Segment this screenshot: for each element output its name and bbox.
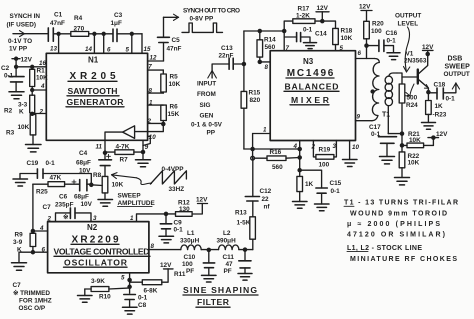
- svg-text:SWEEP: SWEEP: [118, 193, 142, 200]
- svg-text:R19: R19: [319, 146, 331, 153]
- 12V stub at R12: [192, 197, 208, 214]
- svg-text:MINIATURE RF CHOKES: MINIATURE RF CHOKES: [350, 256, 457, 263]
- svg-text:μ ≈ 2000 (PHILIPS: μ ≈ 2000 (PHILIPS: [347, 221, 440, 228]
- svg-text:C7: C7: [43, 204, 52, 211]
- svg-text:7: 7: [148, 63, 152, 70]
- wire 12V to C2 and pin16: [15, 59, 47, 77]
- svg-text:13: 13: [50, 46, 57, 53]
- svg-text:R16: R16: [270, 149, 282, 156]
- potentiometer R8 10K sweep amplitude: [93, 172, 124, 200]
- svg-text:WOUND 9mm TOROID: WOUND 9mm TOROID: [350, 211, 447, 218]
- resistor R6 15K: [161, 104, 180, 125]
- svg-text:0-1: 0-1: [446, 96, 456, 103]
- capacitor C13 22nF: [219, 45, 244, 69]
- svg-text:R17: R17: [298, 6, 310, 13]
- svg-text:10K: 10K: [169, 81, 181, 88]
- capacitor C6 68uF 10V: [59, 180, 91, 201]
- wire N2 pin8 to filter: [149, 243, 181, 250]
- svg-text:SYNCH IN: SYNCH IN: [10, 13, 41, 20]
- wire R25 left down to N2 pin4: [32, 184, 34, 231]
- wire R4 to C3, nodes pin14 pin6: [89, 32, 113, 35]
- svg-text:OUTPUT: OUTPUT: [395, 13, 421, 20]
- wire N3 pin4 vertical: [293, 141, 302, 177]
- svg-text:10: 10: [352, 144, 359, 151]
- svg-text:3-9K: 3-9K: [91, 278, 105, 285]
- svg-text:33HZ: 33HZ: [169, 186, 185, 193]
- wire N3 pin6 node: [356, 44, 379, 59]
- svg-text:C17: C17: [369, 124, 381, 131]
- capacitor C14 0.1: [284, 26, 327, 42]
- svg-text:FILTER: FILTER: [197, 297, 230, 307]
- svg-text:12: 12: [150, 55, 157, 62]
- svg-text:560: 560: [272, 164, 283, 171]
- wire pin1 to R6: [148, 100, 164, 107]
- svg-text:N2: N2: [87, 223, 98, 232]
- svg-text:FROM: FROM: [197, 91, 216, 98]
- svg-text:12V: 12V: [160, 262, 172, 269]
- R16 connector circle: [251, 156, 255, 160]
- ground N2 pin6: [12, 263, 27, 270]
- ground below R22: [395, 178, 410, 185]
- svg-text:100: 100: [182, 261, 193, 268]
- wire L1 to L2 node C10: [201, 248, 218, 251]
- svg-text:C5: C5: [172, 37, 181, 44]
- svg-text:GEN: GEN: [200, 112, 214, 119]
- svg-text:C15: C15: [330, 180, 342, 187]
- svg-text:0-1: 0-1: [174, 226, 184, 233]
- svg-text:C8: C8: [138, 302, 147, 309]
- svg-text:14: 14: [85, 46, 92, 53]
- svg-text:R5: R5: [170, 74, 179, 81]
- pin10 stub: [143, 134, 156, 146]
- svg-text:R3: R3: [6, 130, 15, 137]
- resistor R17 1.2K: [284, 6, 322, 31]
- svg-text:0-1V TO: 0-1V TO: [8, 38, 32, 45]
- svg-text:INPUT: INPUT: [197, 81, 216, 88]
- svg-text:C9: C9: [174, 219, 183, 226]
- IC N1 XR205 sawtooth generator box: [46, 53, 147, 140]
- pin9 wire to ground: [141, 140, 148, 153]
- ground below R8: [98, 200, 113, 207]
- svg-text:47nF: 47nF: [50, 20, 65, 27]
- 12V stub above R20: [359, 4, 372, 22]
- svg-text:C16: C16: [386, 30, 398, 37]
- svg-text:0-1: 0-1: [331, 188, 341, 195]
- svg-text:(IF USED): (IF USED): [7, 22, 36, 29]
- capacitor C2 0.1: [1, 65, 24, 92]
- svg-text:C3: C3: [114, 12, 123, 19]
- svg-text:12V: 12V: [317, 5, 329, 12]
- 12V stub at R11: [160, 262, 173, 282]
- wire T1 to N3 pin9: [356, 113, 373, 120]
- ground below C16: [387, 53, 400, 60]
- svg-text:16: 16: [39, 60, 46, 67]
- svg-text:SIG: SIG: [200, 102, 211, 109]
- svg-text:10K: 10K: [409, 137, 421, 144]
- svg-text:9: 9: [357, 113, 361, 120]
- svg-text:R1: R1: [37, 67, 46, 74]
- 12V stub above R17: [316, 5, 329, 23]
- wire pin8 to R5 bottom: [148, 87, 164, 94]
- svg-text:5: 5: [126, 47, 130, 54]
- emitter node: [427, 91, 430, 94]
- svg-text:T1: T1: [382, 111, 390, 118]
- capacitor C3 1uF: [111, 12, 123, 42]
- resistor R10 3.9K: [85, 278, 130, 300]
- synch out arrow to CRO: [164, 14, 179, 37]
- svg-text:C13: C13: [221, 45, 233, 52]
- ground below C15: [315, 204, 330, 211]
- svg-text:10K: 10K: [112, 181, 124, 188]
- ground below C8: [123, 307, 138, 314]
- svg-text:L1: L1: [187, 230, 195, 237]
- svg-text:1-5K: 1-5K: [237, 220, 251, 227]
- sawtooth waveform 0.4VPP 33HZ: [150, 166, 186, 193]
- svg-text:C11: C11: [223, 254, 235, 261]
- resistor R5 10K: [161, 70, 181, 93]
- resistor 1K bias: [297, 176, 314, 201]
- resistor R14 560: [257, 31, 276, 62]
- input labels: [191, 81, 223, 137]
- svg-text:100: 100: [371, 28, 382, 35]
- svg-text:R7: R7: [120, 156, 129, 163]
- resistor R19 100 between pins 2 and 3: [311, 141, 337, 169]
- svg-text:DSB: DSB: [448, 56, 463, 63]
- svg-text:3: 3: [93, 215, 97, 222]
- svg-text:V1: V1: [406, 50, 414, 57]
- svg-text:8: 8: [265, 64, 269, 71]
- svg-text:MIXER: MIXER: [291, 95, 330, 105]
- resistor R7 4.7K: [105, 143, 143, 163]
- transistor V1 2N3563: [404, 50, 429, 92]
- svg-text:N1: N1: [88, 56, 99, 65]
- svg-text:C18: C18: [434, 81, 446, 88]
- ground below C10: [202, 275, 217, 282]
- wire R6 node to op-amp input: [135, 124, 164, 132]
- svg-text:PF: PF: [186, 268, 194, 275]
- N1 top pin labels: [50, 46, 151, 54]
- ground below 1K: [293, 202, 308, 209]
- svg-text:R2: R2: [4, 107, 13, 114]
- ground below C14: [304, 43, 317, 49]
- resistor R25 47K: [33, 175, 65, 196]
- resistor R4 270: [71, 15, 89, 36]
- svg-text:47nF: 47nF: [167, 45, 182, 52]
- wire pin4 N1: [31, 83, 47, 91]
- svg-text:8: 8: [149, 87, 153, 94]
- wire C3 to pin15: [117, 32, 142, 53]
- wire N3 pin1: [251, 127, 270, 159]
- capacitor C7 235pF trimmed: [43, 201, 93, 222]
- output level label: [395, 13, 421, 28]
- transformer T1 primary winding: [371, 59, 379, 121]
- L1 L2 note text: [347, 245, 457, 263]
- capacitor C18 0.1: [428, 81, 456, 102]
- svg-text:12V: 12V: [422, 44, 434, 51]
- svg-text:XR205: XR205: [70, 71, 116, 82]
- resistor R16 560: [255, 149, 300, 171]
- svg-text:6: 6: [107, 47, 111, 54]
- svg-text:820: 820: [250, 97, 261, 104]
- svg-text:K: K: [19, 109, 24, 116]
- svg-text:1V PP: 1V PP: [9, 46, 28, 53]
- svg-text:10V: 10V: [81, 201, 93, 208]
- 12V stub at V1 collector: [422, 44, 434, 56]
- svg-text:※: ※: [63, 213, 68, 221]
- resistor R1 10K: [30, 67, 48, 90]
- svg-text:3: 3: [333, 143, 337, 150]
- resistor R18 10K: [333, 27, 353, 52]
- N2 pin2 pin3 labels: [47, 215, 98, 223]
- svg-text:2: 2: [39, 109, 44, 116]
- svg-text:235pF: 235pF: [55, 202, 74, 209]
- resistor R22 10K: [399, 152, 419, 178]
- wire N2 pin6 to ground: [19, 247, 48, 263]
- svg-text:68μF: 68μF: [74, 193, 89, 200]
- wire L2 to output node: [239, 248, 253, 251]
- svg-text:GENERATOR: GENERATOR: [67, 97, 125, 107]
- svg-text:C2: C2: [1, 65, 10, 72]
- IC N2 XR2209 voltage controlled oscillator box: [48, 222, 150, 273]
- svg-text:10K: 10K: [408, 159, 420, 166]
- resistor R20 100: [364, 20, 384, 45]
- inductor L1 330uH: [180, 230, 201, 250]
- svg-text:5: 5: [340, 45, 344, 52]
- svg-text:R20: R20: [372, 20, 384, 27]
- svg-text:2: 2: [147, 118, 152, 125]
- svg-text:100: 100: [319, 161, 330, 168]
- svg-text:BALANCED: BALANCED: [285, 82, 339, 92]
- capacitor C5 47nF: [158, 37, 182, 53]
- svg-text:R10: R10: [99, 294, 111, 301]
- svg-text:0-4VPP: 0-4VPP: [162, 166, 185, 173]
- wire N2 pin5 node: [121, 273, 131, 293]
- svg-text:0-1: 0-1: [303, 26, 313, 33]
- svg-text:0-1: 0-1: [387, 37, 397, 44]
- inductor L2 390uH: [217, 230, 239, 250]
- svg-text:12V: 12V: [196, 197, 208, 204]
- 12V stub at R21: [428, 131, 448, 145]
- svg-text:VOLTAGE CONTROLLED: VOLTAGE CONTROLLED: [54, 247, 150, 257]
- svg-text:10K: 10K: [18, 124, 30, 131]
- svg-text:2N3563: 2N3563: [404, 58, 427, 65]
- svg-text:0-1: 0-1: [371, 131, 381, 138]
- svg-text:PF: PF: [224, 268, 232, 275]
- svg-text:R9: R9: [15, 232, 24, 239]
- svg-text:7: 7: [286, 45, 290, 52]
- svg-text:1K: 1K: [305, 181, 314, 188]
- svg-text:0-8V PP: 0-8V PP: [190, 16, 215, 23]
- svg-text:R13: R13: [235, 210, 247, 217]
- svg-text:0-1: 0-1: [4, 73, 14, 80]
- svg-text:1: 1: [263, 127, 267, 134]
- svg-text:C14: C14: [315, 31, 327, 38]
- capacitor C19 0.1: [27, 160, 56, 178]
- node T1 bottom to R21 R22: [388, 132, 403, 152]
- wire C19 left to ground: [13, 174, 37, 187]
- svg-text:C7: C7: [13, 282, 22, 289]
- svg-text:OSC O/P: OSC O/P: [19, 305, 46, 312]
- svg-text:1: 1: [130, 215, 134, 222]
- svg-text:6-8K: 6-8K: [144, 288, 158, 295]
- svg-text:3-3: 3-3: [18, 102, 28, 109]
- sine shaping filter label: [183, 285, 258, 307]
- svg-text:R25: R25: [36, 189, 48, 196]
- svg-text:nf: nf: [264, 204, 271, 211]
- svg-text:FOR 1MHZ: FOR 1MHZ: [19, 298, 52, 305]
- input from sig gen arrow: [208, 64, 229, 78]
- capacitor C11 47pF: [223, 250, 252, 275]
- svg-text:1-2K: 1-2K: [296, 13, 310, 20]
- resistor R2 3.3K: [4, 90, 35, 116]
- svg-text:500: 500: [407, 94, 418, 101]
- svg-text:1: 1: [149, 100, 153, 107]
- svg-text:※ TRIMMED: ※ TRIMMED: [13, 289, 50, 297]
- svg-text:SYNCH OUT TO CRO: SYNCH OUT TO CRO: [183, 7, 240, 14]
- svg-text:4: 4: [40, 83, 45, 90]
- svg-text:AMPLITUDE: AMPLITUDE: [118, 200, 156, 207]
- svg-text:4: 4: [293, 143, 298, 150]
- pulse waveform: [182, 23, 223, 32]
- resistor R9 3.9K: [13, 232, 36, 254]
- ground below pin9: [136, 152, 151, 167]
- svg-text:130: 130: [179, 206, 190, 213]
- svg-text:15: 15: [144, 46, 151, 53]
- svg-text:L2: L2: [223, 230, 231, 237]
- svg-text:LEVEL: LEVEL: [398, 20, 419, 27]
- wire N2 pin1 to R12: [130, 212, 176, 222]
- wire op-amp output to pin11 node: [105, 132, 123, 140]
- R8 wiper arrow with squiggle: [112, 173, 152, 185]
- svg-text:SINE SHAPING: SINE SHAPING: [183, 285, 257, 295]
- svg-text:L1, L2 - STOCK LINE: L1, L2 - STOCK LINE: [347, 245, 422, 252]
- svg-text:6: 6: [42, 247, 46, 254]
- resistor R21 10K: [402, 131, 433, 148]
- svg-text:11: 11: [96, 144, 103, 151]
- wire pin5 drop: [131, 34, 133, 54]
- svg-text:330μH: 330μH: [180, 238, 200, 245]
- ground below R3: [26, 145, 42, 152]
- ground below C17: [380, 157, 395, 164]
- ground below C11: [238, 274, 252, 281]
- synch in arrow: [13, 31, 48, 37]
- capacitor C10 100pF: [182, 250, 215, 276]
- carrier rail vertical: [242, 31, 245, 91]
- wire R14 to N3 pin8: [258, 60, 270, 71]
- svg-text:4: 4: [39, 225, 44, 232]
- svg-text:R24: R24: [406, 102, 418, 109]
- wire pin6 drop: [103, 34, 105, 54]
- wire R24 base to V1: [402, 76, 417, 78]
- svg-text:12V: 12V: [21, 56, 33, 63]
- wire N2 pin4: [31, 225, 47, 233]
- pin11 node: [96, 140, 107, 159]
- resistor R15 820: [241, 90, 261, 149]
- wire C19 right to R8 node: [43, 174, 102, 187]
- DSB output arrow: [452, 83, 459, 89]
- svg-text:47120 OR SIMILAR): 47120 OR SIMILAR): [347, 231, 445, 238]
- svg-text:R11: R11: [174, 271, 186, 278]
- svg-text:2: 2: [311, 144, 316, 151]
- svg-text:5: 5: [121, 275, 125, 282]
- wire pin2 to R6 bottom node: [147, 118, 165, 125]
- ground at R10: [78, 296, 93, 303]
- resistor R23 1K: [426, 92, 447, 122]
- svg-text:8: 8: [151, 243, 155, 250]
- svg-text:2: 2: [47, 215, 52, 222]
- svg-text:0-1 & 0-5V: 0-1 & 0-5V: [191, 122, 223, 129]
- capacitor C8 0.1: [124, 295, 148, 310]
- svg-text:12V: 12V: [436, 131, 448, 138]
- resistor R3 10K: [6, 115, 36, 145]
- capacitor C1 47nF: [48, 12, 65, 42]
- wire pin7 to R5: [148, 63, 164, 70]
- ground below C2: [9, 92, 24, 99]
- svg-text:10K: 10K: [341, 35, 353, 42]
- svg-text:R8: R8: [93, 172, 102, 179]
- transformer T1 secondary winding: [385, 73, 397, 134]
- svg-text:R6: R6: [170, 104, 179, 111]
- capacitor C12 22nF: [245, 158, 271, 210]
- svg-text:T1 - 13 TURNS TRI-FILAR: T1 - 13 TURNS TRI-FILAR: [344, 200, 458, 207]
- svg-text:10: 10: [149, 134, 156, 141]
- svg-text:1μF: 1μF: [111, 20, 122, 27]
- resistor R11 6.8K: [130, 271, 186, 294]
- svg-text:47: 47: [226, 261, 234, 268]
- svg-text:68μF: 68μF: [76, 160, 91, 167]
- wire N3 pin7: [284, 31, 289, 52]
- svg-text:4-7K: 4-7K: [116, 143, 130, 150]
- op-amp buffer: [123, 126, 135, 139]
- wire R15 to pin4 node: [244, 148, 300, 150]
- svg-text:47K: 47K: [50, 175, 62, 182]
- svg-text:12V: 12V: [359, 4, 371, 11]
- resistor R13 1.5K: [235, 201, 255, 250]
- svg-text:SAWTOOTH: SAWTOOTH: [68, 86, 118, 96]
- svg-text:-R23: -R23: [433, 111, 447, 118]
- wire pin2 N1: [31, 109, 47, 116]
- svg-text:R15: R15: [249, 90, 261, 97]
- ground below C9: [159, 236, 174, 243]
- wire C1 to R4, node pin13: [53, 32, 71, 35]
- resistor R12 130: [176, 200, 193, 217]
- C7 trim note: [13, 282, 52, 312]
- svg-text:1K: 1K: [435, 103, 444, 110]
- svg-text:C19: C19: [27, 160, 39, 167]
- wire C5 to pin12: [148, 43, 164, 62]
- svg-text:0-1: 0-1: [46, 160, 56, 167]
- capacitor C9 0.1: [160, 214, 183, 236]
- svg-text:N3: N3: [303, 57, 314, 66]
- wire pin13 drop: [58, 34, 60, 54]
- top rail to R17: [244, 29, 286, 32]
- capacitor C17 0.1: [369, 124, 397, 156]
- potentiometer R24 500: [397, 73, 418, 134]
- wire 12V node to R18: [322, 21, 335, 28]
- svg-text:0-1: 0-1: [138, 295, 148, 302]
- svg-text:10K: 10K: [36, 74, 48, 81]
- wire N3 pin10 to ground: [343, 141, 360, 167]
- svg-text:560: 560: [265, 44, 276, 51]
- svg-text:OUTPUT: OUTPUT: [444, 71, 470, 78]
- svg-text:C12: C12: [260, 188, 272, 195]
- capacitor C15 0.1: [300, 170, 342, 204]
- output level arrow: [404, 27, 410, 72]
- svg-text:PP: PP: [207, 130, 216, 137]
- svg-text:C6: C6: [59, 193, 68, 200]
- svg-text:C4: C4: [79, 150, 88, 157]
- svg-text:9: 9: [145, 144, 149, 151]
